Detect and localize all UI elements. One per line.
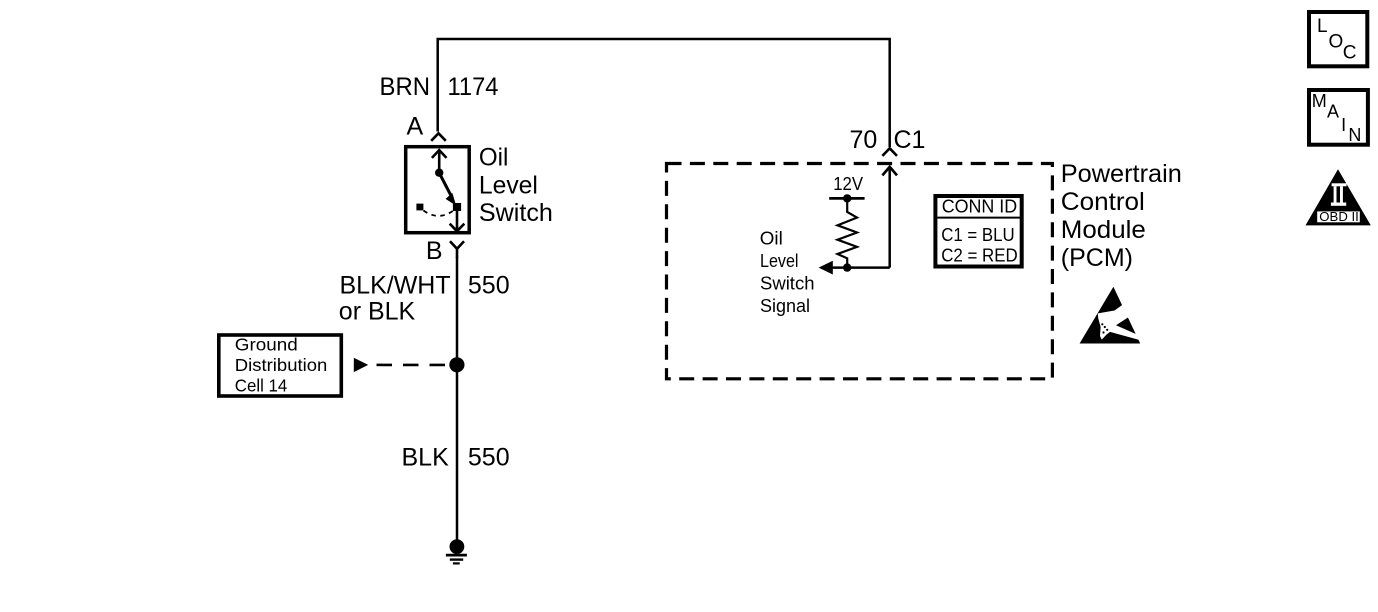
svg-text:1174: 1174 <box>448 73 499 101</box>
ground distribution reference box <box>219 334 341 396</box>
wire top horizontal run from switch A to PCM 70 C1 <box>438 39 890 147</box>
svg-text:CONN ID: CONN ID <box>942 197 1018 217</box>
CONN ID table box <box>935 196 1021 267</box>
ESD sensitive device symbol <box>1080 287 1141 344</box>
svg-text:OBD II: OBD II <box>1319 209 1359 224</box>
switch contact dot B side <box>453 203 461 211</box>
label Powertrain Control Module (PCM) <box>1061 160 1182 272</box>
svg-text:N: N <box>1348 125 1361 145</box>
svg-text:(PCM): (PCM) <box>1061 244 1133 272</box>
svg-text:Distribution: Distribution <box>235 355 327 375</box>
ground node dot <box>450 539 465 554</box>
oil level switch S1 box <box>406 147 470 233</box>
svg-text:BRN: BRN <box>380 73 431 101</box>
svg-text:Level: Level <box>479 171 538 199</box>
svg-text:C: C <box>1343 43 1357 64</box>
switch common node dot <box>435 169 443 177</box>
switch open contact square <box>416 204 423 211</box>
svg-text:I: I <box>1341 115 1346 135</box>
PCM internal input arrow <box>882 167 897 268</box>
12V supply rail <box>829 197 864 200</box>
resistor bottom node dot <box>843 263 851 271</box>
pull-up resistor <box>838 198 858 267</box>
label 550 lower <box>468 444 510 472</box>
PCM dashed module box <box>667 164 1053 379</box>
svg-text:A: A <box>407 113 424 141</box>
signal arrowhead <box>819 261 833 275</box>
MAIN reference icon <box>1309 90 1368 145</box>
svg-text:Level: Level <box>760 250 799 271</box>
svg-text:Module: Module <box>1061 216 1146 244</box>
connector chevron pin A <box>431 133 446 141</box>
label Oil Level Switch <box>479 143 553 227</box>
switch lever arm with arrowhead <box>440 174 456 206</box>
svg-text:O: O <box>1329 31 1344 52</box>
svg-text:Switch: Switch <box>760 272 815 293</box>
svg-text:BLK/WHT: BLK/WHT <box>340 271 451 299</box>
pin A label <box>407 113 424 141</box>
label BLK/WHT or BLK <box>339 271 451 325</box>
svg-text:Control: Control <box>1061 188 1145 216</box>
label 550 upper <box>468 271 510 299</box>
pin B label <box>426 237 443 265</box>
svg-text:12V: 12V <box>833 174 863 194</box>
connector Y pin B <box>450 241 464 258</box>
svg-text:Powertrain: Powertrain <box>1061 160 1182 188</box>
wire PCM horizontal to signal arrow <box>830 266 890 269</box>
svg-text:A: A <box>1327 101 1339 121</box>
label Oil Level Switch Signal <box>760 228 815 316</box>
svg-text:C2 = RED: C2 = RED <box>941 246 1018 266</box>
ground symbol G101 <box>446 555 467 563</box>
wire pin B down to ground <box>456 257 459 546</box>
svg-text:BLK: BLK <box>402 444 450 472</box>
svg-text:L: L <box>1317 16 1328 37</box>
label 12V <box>833 174 863 194</box>
switch down arrow to pin B <box>450 211 465 231</box>
svg-text:C1: C1 <box>894 126 926 154</box>
label 1174 <box>448 73 499 101</box>
node dot on 12V rail <box>843 194 851 202</box>
LOC reference icon <box>1309 12 1367 66</box>
svg-text:70: 70 <box>850 126 878 154</box>
label BLK lower <box>402 444 450 472</box>
svg-text:Switch: Switch <box>479 199 553 227</box>
ground distribution arrowhead <box>354 358 368 372</box>
connector chevron pin 70 C1 <box>882 148 897 156</box>
svg-text:M: M <box>1312 91 1327 111</box>
junction node dot <box>449 357 464 372</box>
label C1 <box>894 126 926 154</box>
svg-text:Oil: Oil <box>479 143 509 171</box>
svg-text:C1 = BLU: C1 = BLU <box>941 225 1015 245</box>
svg-text:Ground: Ground <box>235 334 298 354</box>
label 70 <box>850 126 878 154</box>
OBD II icon <box>1306 169 1371 225</box>
svg-text:Oil: Oil <box>760 228 783 249</box>
svg-text:550: 550 <box>468 444 510 472</box>
svg-text:or BLK: or BLK <box>339 298 416 326</box>
svg-text:B: B <box>426 237 443 265</box>
dashed wire to ground distribution <box>368 364 450 367</box>
label BRN <box>380 73 431 101</box>
svg-text:Signal: Signal <box>760 295 810 316</box>
svg-text:550: 550 <box>468 271 510 299</box>
switch travel dashed arc <box>424 211 453 216</box>
svg-text:Cell 14: Cell 14 <box>235 375 288 395</box>
switch up arrow to pin A <box>432 150 447 171</box>
